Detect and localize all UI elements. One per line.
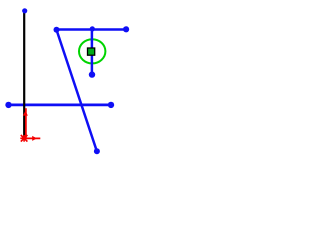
- node dot right end of top line: [123, 26, 129, 32]
- ground origin marker: red Y axis line: [25, 108, 27, 138]
- node dot bottom of vertical line: [89, 71, 95, 77]
- ground origin marker: red Y axis arrowhead: [23, 111, 28, 116]
- wire bottom horizontal blue line: [8, 104, 111, 107]
- ground origin marker: red star: [20, 135, 28, 142]
- node dot left end of bottom line: [5, 102, 11, 108]
- node dot top of black line: [22, 8, 27, 13]
- node dot bottom end of diagonal: [94, 148, 100, 154]
- green center square marker: [88, 48, 95, 55]
- node dot right end of bottom line: [108, 102, 114, 108]
- wire vertical black line: [23, 11, 25, 138]
- wire top horizontal blue line: [57, 28, 127, 31]
- wire diagonal blue line: [57, 30, 97, 151]
- circle C1 (green construction circle): [79, 39, 105, 63]
- node dot left end of top line: [54, 27, 60, 33]
- wire vertical blue line through circle: [91, 30, 94, 75]
- ground origin marker: red X axis arrowhead: [32, 136, 37, 141]
- ground origin marker: red X axis line: [24, 137, 40, 139]
- node dot junction of top line and vertical: [90, 26, 95, 31]
